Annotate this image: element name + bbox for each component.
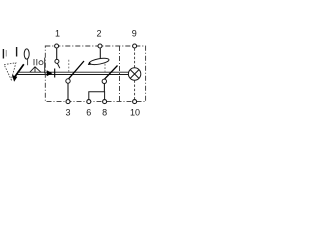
dashed wire lamp to terminal 10 [134,80,136,99]
terminal 2 [98,44,102,48]
pivot tent [30,67,41,73]
dashed triangle (alternate position) [4,63,16,80]
detent triangle on bar [47,70,53,76]
rocker tick a [33,59,35,65]
position label 0 [24,49,29,59]
pivot circle (contact 2) [102,79,106,83]
position label I [16,47,18,57]
dashed link (contact 2) [104,64,106,72]
terminal 3 [66,100,70,104]
pivot circle (contact 1) [66,79,70,83]
jumper bracket 6-8 [89,92,105,100]
linkage bar (lower line) [17,74,129,76]
svg-text:6: 6 [86,108,91,118]
wire terminal1 to fixed contact [56,48,58,59]
detent stop bar [54,69,56,78]
pushrod [44,58,46,74]
svg-text:8: 8 [102,108,107,118]
terminal 10 [133,100,137,104]
svg-text:10: 10 [130,108,140,118]
internal dashed divider [119,46,121,102]
dash-dot enclosure box [45,46,145,102]
dashed wire terminal 9 to lamp [134,48,136,67]
fixed contact circle (contact 1) [55,59,59,63]
wire pivot to jumper [103,84,105,92]
contact 1 seat stub [57,63,59,68]
svg-text:9: 9 [132,28,137,38]
position label II stroke 2 [5,50,7,57]
terminal 9 [133,44,137,48]
linkage bar (upper line) [17,71,129,73]
wire terminal2 down [99,48,101,58]
momentary ellipse arrow [88,57,110,66]
position label II stroke 1 [2,49,4,59]
actuation arrow [12,64,24,82]
rocker pivot circle [39,61,43,65]
terminal 8 [103,100,107,104]
lever (contact 2) [104,66,117,80]
svg-text:1: 1 [55,28,60,38]
terminal 6 [87,100,91,104]
terminal 1 [55,44,59,48]
rocker tick b [36,59,38,65]
tick under 0 [27,59,29,65]
svg-text:2: 2 [96,28,101,38]
lamp [128,68,140,80]
dashed link (contact 1) [68,60,70,72]
wire pivot to terminal 3 [67,83,69,99]
svg-text:3: 3 [65,108,70,118]
lever (contact 1) [68,61,84,79]
